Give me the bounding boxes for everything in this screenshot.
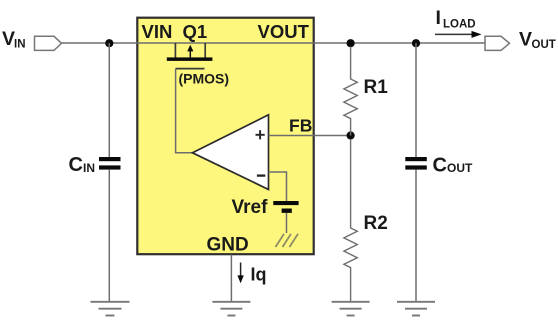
- ground (COUT): [397, 302, 435, 316]
- ground (GND pin): [212, 302, 250, 316]
- svg-text:V: V: [519, 29, 532, 51]
- node: VOUT junction (COUT top): [412, 39, 420, 47]
- label CIN: [69, 154, 96, 176]
- svg-text:I: I: [436, 7, 441, 29]
- svg-text:Vref: Vref: [232, 197, 269, 218]
- svg-text:(PMOS): (PMOS): [179, 71, 230, 87]
- LDO IC body U1 (yellow box): [137, 18, 313, 255]
- svg-text:OUT: OUT: [447, 161, 473, 175]
- wire: gate to error-amp output: [176, 69, 193, 153]
- label ILOAD: [436, 7, 476, 31]
- svg-text:VIN: VIN: [142, 21, 173, 42]
- voltage reference Vref: [273, 201, 298, 213]
- signal ground (hatched): [276, 234, 299, 247]
- wire: COUT upper lead: [415, 43, 417, 157]
- svg-text:VOUT: VOUT: [258, 21, 310, 42]
- transistor Q1 (PMOS pass element): [167, 43, 213, 69]
- current arrow Iq: [237, 263, 243, 284]
- wire: FB net (+ input to divider): [269, 135, 351, 137]
- ground (R2): [332, 302, 370, 316]
- svg-text:OUT: OUT: [532, 39, 556, 51]
- label VOUT (net): [519, 29, 556, 52]
- wire: GND pin lead: [230, 255, 232, 302]
- current arrow ILOAD: [435, 31, 482, 38]
- wire: CIN upper lead: [108, 43, 110, 157]
- port tag VOUT: [485, 36, 510, 50]
- wire: Vref to signal ground: [286, 213, 288, 233]
- label COUT: [433, 155, 474, 177]
- svg-text:IN: IN: [83, 161, 95, 175]
- node: VIN junction: [105, 39, 113, 47]
- svg-text:LOAD: LOAD: [443, 19, 476, 31]
- label VIN (net): [2, 28, 26, 51]
- svg-text:FB: FB: [289, 116, 312, 136]
- capacitor CIN: [99, 157, 121, 170]
- capacitor COUT: [405, 157, 427, 170]
- svg-text:R1: R1: [364, 77, 389, 98]
- svg-text:C: C: [69, 154, 83, 176]
- op-amp U2 (error amplifier): [193, 115, 269, 190]
- wire: - input to Vref: [269, 172, 287, 201]
- resistor R1: [344, 47, 357, 136]
- wire: top rail VIN to VOUT: [61, 42, 485, 44]
- wire: CIN lower lead: [108, 170, 110, 302]
- op-amp - input mark: [257, 174, 265, 176]
- svg-text:C: C: [433, 155, 447, 177]
- resistor R2: [344, 139, 357, 302]
- svg-text:Iq: Iq: [251, 265, 267, 285]
- svg-text:GND: GND: [207, 235, 249, 256]
- op-amp + input mark: [256, 130, 265, 139]
- node: FB junction: [347, 131, 355, 139]
- ground (CIN): [91, 302, 130, 316]
- node: VOUT junction (R1 top): [347, 39, 355, 47]
- svg-text:R2: R2: [364, 213, 388, 234]
- port tag VIN: [35, 36, 62, 50]
- svg-text:Q1: Q1: [183, 21, 208, 42]
- wire: COUT lower lead: [415, 170, 417, 302]
- svg-text:IN: IN: [14, 39, 26, 51]
